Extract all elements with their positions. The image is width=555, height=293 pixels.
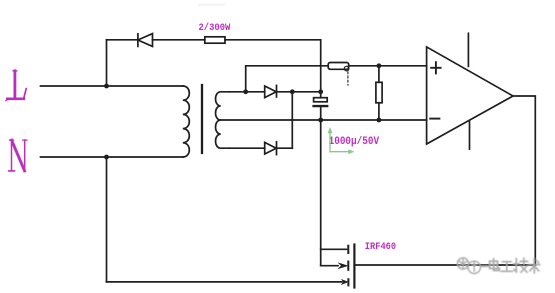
- diode D1: [137, 34, 139, 47]
- wire N junction down: [106, 157, 108, 282]
- mosfet Q1 body arrow: [338, 263, 347, 269]
- wire drain to right rail: [354, 264, 535, 266]
- mosfet Q1 gate lead: [321, 248, 347, 250]
- mosfet Q1 body plate: [347, 262, 349, 270]
- diode D3: [265, 142, 277, 154]
- mosfet Q1 body lead: [321, 265, 338, 267]
- wire center tap line: [221, 119, 427, 121]
- svg-text:2/300W: 2/300W: [199, 22, 232, 34]
- junction R3 bottom: [377, 118, 382, 123]
- annotation dotted line: [347, 72, 349, 85]
- wire corner down to cap: [320, 40, 322, 98]
- op-amp minus input symbol: [430, 118, 439, 120]
- mosfet Q1 channel bar: [353, 245, 355, 288]
- diode D2: [265, 86, 277, 98]
- junction diode bus top: [290, 89, 295, 94]
- svg-text:IRF460: IRF460: [365, 242, 396, 253]
- svg-text:1000μ/50V: 1000μ/50V: [329, 136, 380, 148]
- annotation green axis: [328, 127, 355, 154]
- junction cap bottom: [318, 118, 323, 123]
- watermark logo: [457, 258, 487, 274]
- junction secondary top: [243, 89, 248, 94]
- watermark text shu: [529, 258, 540, 273]
- junction L: [104, 84, 109, 89]
- wire op-amp output: [513, 96, 535, 265]
- junction N: [104, 155, 109, 160]
- wire top to diode: [107, 39, 138, 41]
- transformer T1 secondary: [216, 92, 230, 148]
- node L: [6, 71, 26, 101]
- wire secondary bottom lead: [230, 147, 265, 149]
- wire diode to R1: [153, 39, 205, 41]
- watermark text ji: [514, 258, 528, 272]
- watermark text gong: [501, 262, 512, 272]
- wire R1 to corner: [225, 39, 321, 41]
- wire bottom rail: [107, 281, 342, 283]
- junction cap top: [318, 89, 323, 94]
- wire secondary top lead: [230, 91, 265, 93]
- mosfet Q1 gate plate: [347, 246, 349, 253]
- resistor R2: [328, 63, 349, 70]
- node N: [9, 140, 27, 171]
- op-amp plus input symbol: [431, 62, 440, 73]
- wire D2 cathode: [277, 91, 321, 93]
- mosfet Q1 source plate: [347, 279, 349, 285]
- annotation faint top smudge: [198, 4, 225, 6]
- annotation circle on R2: [344, 66, 349, 71]
- op-amp bottom power pin: [469, 122, 471, 150]
- wire diode bus vertical: [291, 92, 293, 148]
- junction R3 top: [377, 63, 382, 68]
- resistor R1: [205, 37, 225, 43]
- mosfet Q1 source arrow: [341, 279, 348, 284]
- transformer T1 primary: [183, 86, 190, 157]
- wire N input: [41, 156, 183, 158]
- wire D3 cathode: [277, 147, 293, 149]
- op-amp top power pin: [467, 33, 469, 66]
- wire sec-top up corner: [246, 66, 329, 92]
- wire R3 top stub: [378, 66, 380, 83]
- capacitor C1: [314, 98, 328, 102]
- wire R3 bottom stub: [378, 103, 380, 120]
- wire L junction up: [106, 40, 108, 86]
- op-amp U1: [427, 47, 513, 144]
- wire gate feed vertical: [320, 120, 322, 266]
- watermark text dian: [490, 259, 500, 271]
- wire L input: [41, 85, 183, 87]
- wire cap bottom stub: [320, 107, 322, 120]
- resistor R3: [376, 82, 382, 103]
- wire R2 to op-amp: [349, 65, 427, 67]
- transformer core: [201, 85, 203, 153]
